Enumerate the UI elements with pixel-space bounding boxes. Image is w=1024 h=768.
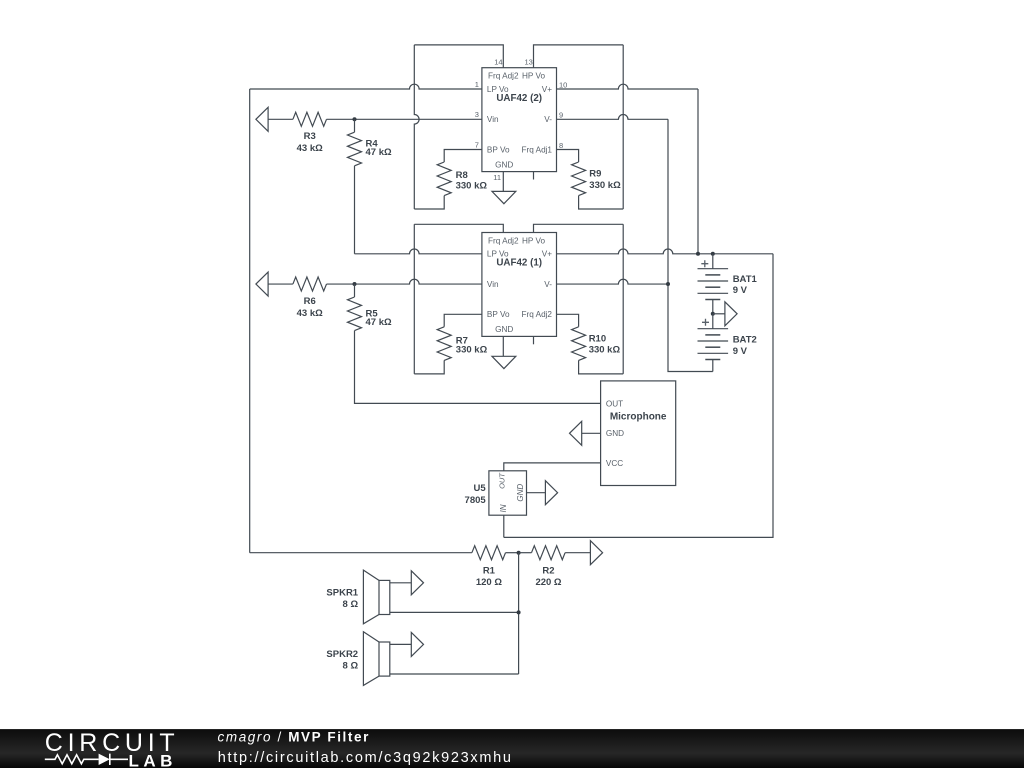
svg-text:47 kΩ: 47 kΩ	[366, 317, 392, 328]
wire rail (x=623) lower segment	[622, 224, 624, 374]
wire R9 bottom to rail	[579, 196, 624, 209]
net flag port row2 (Vin U1)	[256, 272, 268, 296]
svg-text:BAT2: BAT2	[733, 335, 757, 346]
svg-text:Frq Adj2: Frq Adj2	[522, 310, 553, 319]
wire U5 OUT to microphone VCC	[504, 463, 601, 471]
wire U5 IN down	[503, 515, 505, 537]
svg-text:U5: U5	[474, 483, 487, 494]
wire left rail outer (LP Vo net)	[249, 89, 251, 553]
wire pin13 top loop of U1	[534, 224, 624, 232]
svg-text:7805: 7805	[465, 495, 487, 506]
resistor R1	[472, 546, 506, 560]
svg-text:BP Vo: BP Vo	[487, 145, 510, 154]
ground flag U5 GND	[545, 481, 557, 505]
resistor R2	[532, 546, 566, 560]
svg-text:Vin: Vin	[487, 280, 499, 289]
node junction battery midpoint	[711, 312, 715, 316]
net flag port row1 (Vin U2)	[256, 107, 268, 131]
svg-text:BP Vo: BP Vo	[487, 310, 510, 319]
wire R6 to U1 pin3	[327, 279, 482, 284]
resistor R10	[572, 327, 586, 361]
svg-text:Frq Adj2: Frq Adj2	[488, 237, 519, 246]
svg-text:330 kΩ: 330 kΩ	[456, 345, 488, 356]
label BAT1 plus	[701, 260, 708, 267]
microphone MIC1 body	[601, 381, 676, 486]
svg-text:R1: R1	[483, 565, 496, 576]
svg-text:330 kΩ: 330 kΩ	[589, 180, 621, 191]
wire pin13 top loop of U2	[534, 45, 624, 68]
svg-text:http://circuitlab.com/c3q92k92: http://circuitlab.com/c3q92k923xmhu	[218, 750, 513, 766]
node junction V- rail	[666, 282, 670, 286]
wire R4 down then right to U1 pin1 (hop at rail)	[354, 166, 356, 254]
label BAT2 plus	[702, 319, 709, 326]
battery BAT1	[698, 254, 729, 314]
battery BAT2	[698, 314, 729, 372]
svg-text:R3: R3	[304, 131, 316, 142]
svg-text:8 Ω: 8 Ω	[343, 599, 359, 610]
wire SPKR2 minus	[390, 673, 519, 675]
svg-text:R8: R8	[456, 170, 468, 181]
svg-text:OUT: OUT	[606, 399, 623, 408]
svg-text:BAT1: BAT1	[733, 274, 758, 285]
resistor R9	[572, 162, 586, 196]
speaker SPKR1	[363, 570, 389, 624]
svg-text:Vin: Vin	[487, 115, 499, 124]
wire U1 stub pin12	[533, 336, 535, 344]
wire speaker rail down	[518, 553, 520, 674]
svg-text:330 kΩ: 330 kΩ	[589, 345, 621, 356]
svg-text:14: 14	[494, 58, 502, 67]
svg-text:9 V: 9 V	[733, 285, 748, 296]
wire U2 pin7 to R8	[444, 150, 482, 163]
wire rail (x=414) lower segment	[413, 224, 415, 374]
svg-text:Frq Adj2: Frq Adj2	[488, 72, 519, 81]
resistor R5	[354, 284, 356, 297]
svg-text:43 kΩ: 43 kΩ	[297, 143, 323, 154]
svg-text:11: 11	[493, 173, 501, 182]
wire left rail to R1	[250, 552, 472, 554]
ground symbol U2 pin11	[502, 172, 504, 192]
node junction V+ rail to battery	[696, 252, 700, 256]
wire U2 stub pin12	[533, 172, 535, 180]
wire SPKR1 minus	[390, 611, 519, 613]
resistor R4	[354, 119, 356, 132]
resistor R8	[437, 162, 451, 196]
svg-text:VCC: VCC	[606, 459, 623, 468]
wire U2 pin9 V- row	[557, 115, 669, 120]
net flag battery midpoint	[713, 313, 725, 315]
wire port to R3	[268, 118, 293, 120]
wire U1 pin9 V- row	[557, 279, 669, 284]
regulator U5 body	[489, 471, 527, 515]
svg-text:3: 3	[475, 110, 479, 119]
wire SPKR2 plus to flag	[390, 643, 412, 645]
wire V+ rail (x=698)	[697, 89, 699, 254]
svg-text:R10: R10	[589, 333, 606, 344]
svg-text:LAB: LAB	[129, 752, 177, 768]
svg-text:LP Vo: LP Vo	[487, 85, 509, 94]
wire rail R8 side (x=414) upper segment with hop	[414, 45, 419, 209]
wire U2 pin10 V+ row	[557, 84, 699, 89]
net flag SPKR1	[411, 571, 423, 595]
svg-text:V+: V+	[542, 85, 552, 94]
wire pin14 top loop of U2	[414, 45, 503, 68]
wire V- rail (x=668)	[668, 119, 713, 371]
resistor R7	[437, 327, 451, 361]
wire R7 bottom to rail	[414, 360, 444, 374]
svg-text:UAF42 (1): UAF42 (1)	[496, 258, 542, 269]
svg-text:Frq Adj1: Frq Adj1	[522, 145, 553, 154]
net flag R2 output	[590, 541, 602, 565]
wire SPKR1 plus to flag	[390, 582, 412, 584]
node junction R3/R4	[353, 117, 357, 121]
svg-text:V-: V-	[544, 115, 552, 124]
ground flag microphone GND	[570, 421, 582, 445]
svg-text:LP Vo: LP Vo	[487, 250, 509, 259]
svg-text:V+: V+	[542, 250, 552, 259]
resistor R3	[293, 112, 327, 126]
svg-text:7: 7	[475, 140, 479, 149]
svg-text:330 kΩ: 330 kΩ	[456, 181, 488, 192]
svg-text:UAF42 (2): UAF42 (2)	[496, 93, 542, 104]
speaker SPKR2	[363, 632, 389, 686]
svg-text:SPKR1: SPKR1	[326, 588, 358, 599]
svg-text:GND: GND	[606, 429, 624, 438]
op-amp U2 (UAF42 (2)) body	[475, 58, 568, 182]
node junction R6/R5	[353, 282, 357, 286]
svg-text:R6: R6	[304, 296, 316, 307]
svg-text:HP Vo: HP Vo	[522, 72, 546, 81]
svg-text:R9: R9	[589, 168, 601, 179]
svg-text:IN: IN	[499, 504, 508, 512]
wire port to R6	[268, 283, 293, 285]
op-amp U1 (UAF42 (1)) body	[482, 233, 557, 337]
svg-text:8: 8	[559, 141, 563, 150]
svg-text:HP Vo: HP Vo	[522, 237, 546, 246]
svg-text:10: 10	[559, 80, 567, 89]
wire pin14 top loop of U1	[414, 224, 503, 232]
svg-text:1: 1	[475, 80, 479, 89]
svg-text:43 kΩ: 43 kΩ	[297, 308, 323, 319]
svg-text:GND: GND	[495, 325, 513, 334]
svg-text:8 Ω: 8 Ω	[343, 661, 359, 672]
svg-text:9: 9	[559, 111, 563, 120]
wire R1 to junction	[506, 552, 519, 554]
wire U5 GND stub	[527, 492, 546, 494]
net flag SPKR2	[411, 632, 423, 656]
node junction speaker rail	[517, 610, 521, 614]
wire R10 bottom to rail	[579, 360, 624, 374]
svg-text:13: 13	[524, 58, 532, 67]
ground symbol U1 GND pin	[502, 336, 504, 356]
svg-text:GND: GND	[495, 160, 513, 169]
svg-text:220 Ω: 220 Ω	[535, 577, 561, 588]
svg-text:120 Ω: 120 Ω	[476, 577, 502, 588]
wire right outer rail (battery+ to U5 IN)	[504, 254, 773, 538]
resistor R6	[293, 277, 327, 291]
node junction R1/R2/speakers	[517, 551, 521, 555]
wire U1 pin10 V+ row to battery	[557, 249, 774, 254]
svg-text:SPKR2: SPKR2	[326, 649, 358, 660]
wire R5 down to microphone OUT	[355, 331, 601, 404]
wire rail pin13-R9 (x=623) upper segment	[622, 45, 624, 209]
node junction battery top	[711, 252, 715, 256]
svg-text:cmagro / MVP Filter: cmagro / MVP Filter	[218, 730, 370, 745]
wire R3 to U2 pin3	[327, 118, 482, 120]
wire node LP_Vo U2 pin1 row	[250, 84, 482, 89]
wire junction to R2	[519, 552, 532, 554]
svg-text:47 kΩ: 47 kΩ	[366, 147, 392, 158]
svg-text:GND: GND	[516, 484, 525, 502]
logo CircuitLab	[0, 729, 1024, 768]
wire U2 pin8 to R9	[557, 150, 579, 163]
svg-text:V-: V-	[544, 280, 552, 289]
svg-text:R2: R2	[542, 565, 554, 576]
svg-text:Microphone: Microphone	[610, 412, 667, 423]
wire U1 pin7 to R7	[444, 314, 482, 327]
svg-text:OUT: OUT	[498, 472, 507, 489]
svg-text:9 V: 9 V	[733, 346, 748, 357]
wire R2 to flag	[565, 552, 590, 554]
wire microphone GND stub	[582, 432, 601, 434]
wire R8 bottom to rail	[414, 196, 444, 209]
wire U1 pin8 to R10	[557, 314, 579, 327]
